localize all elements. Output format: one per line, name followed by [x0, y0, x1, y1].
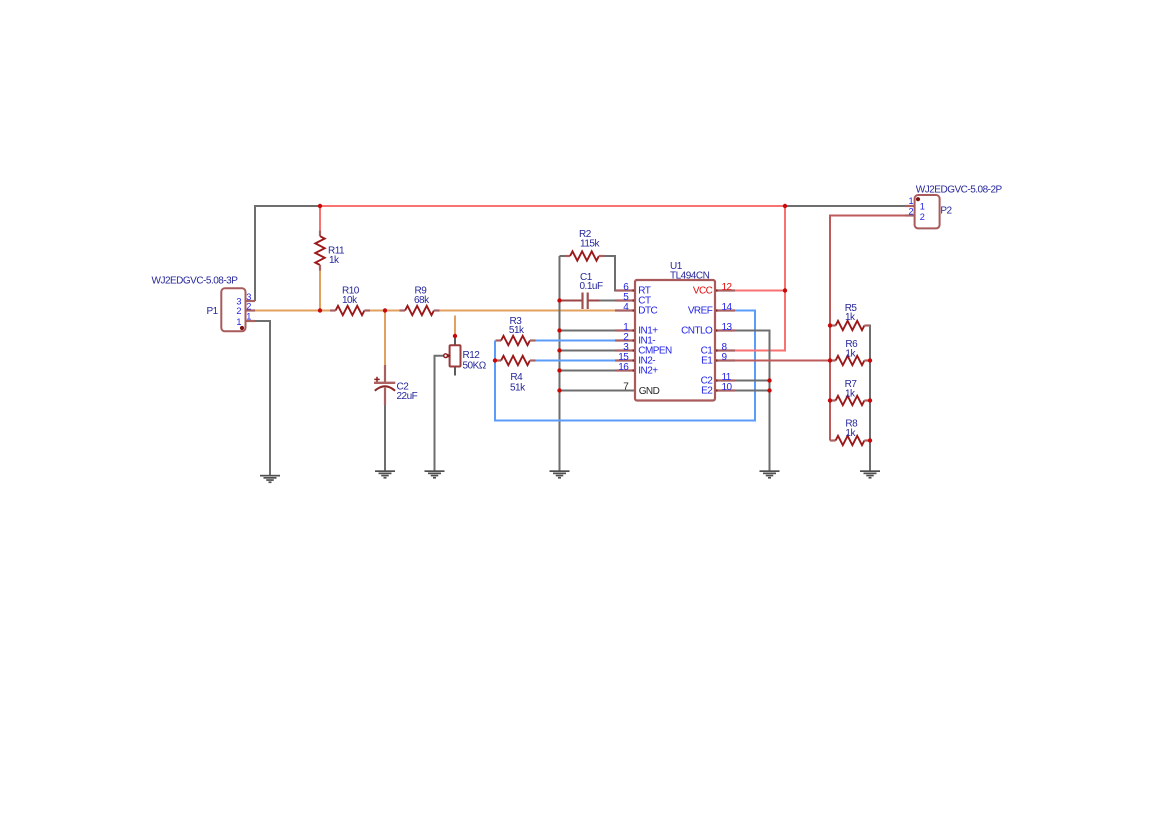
- wire R3 right to U1 IN1- pin 2 (blue): [536, 340, 617, 342]
- wire P2 pin2 down to resistor ladder (brick red): [830, 216, 906, 441]
- wire rail to U1 IN1+ pin 1 (gray): [560, 330, 617, 332]
- svg-text:1k: 1k: [845, 388, 856, 399]
- svg-text:3: 3: [236, 296, 241, 306]
- connector P1 pin stubs: [245, 301, 255, 321]
- svg-text:3: 3: [246, 292, 251, 302]
- svg-text:TL494CN: TL494CN: [670, 271, 710, 282]
- node ladder R7 left: [828, 398, 832, 402]
- svg-text:VCC: VCC: [693, 286, 713, 297]
- node gnd / E2 pin10: [767, 388, 771, 392]
- wire C2 bottom to ground (gray): [384, 405, 386, 471]
- wire R4 right to U1 IN2- pin 15 (blue): [536, 360, 617, 362]
- svg-text:2: 2: [908, 207, 913, 217]
- svg-text:1k: 1k: [845, 312, 856, 323]
- wire C1 right to U1 CT pin 5 (gray): [599, 300, 616, 302]
- resistor R7: [830, 396, 870, 405]
- wire rail to U1 IN2+ pin 16 (gray): [560, 370, 617, 372]
- node orange rail / C2 branch: [383, 308, 387, 312]
- svg-text:51k: 51k: [509, 325, 525, 336]
- wire top rail VCC net (light red): [319, 205, 785, 207]
- svg-text:WJ2EDGVC-5.08-2P: WJ2EDGVC-5.08-2P: [916, 185, 1003, 196]
- svg-text:2: 2: [920, 212, 925, 222]
- ground below C2: [375, 470, 395, 478]
- svg-text:1: 1: [246, 312, 251, 322]
- svg-text:1k: 1k: [845, 428, 856, 439]
- svg-text:1: 1: [236, 317, 241, 327]
- component value and name labels: [152, 185, 1003, 439]
- connector P2 body: [915, 195, 940, 228]
- wire U1 C2 pin 11 to ground rail (gray): [735, 380, 770, 382]
- connector P2 pin numbers: [908, 196, 924, 222]
- svg-text:10: 10: [722, 382, 733, 393]
- resistor R11: [315, 231, 324, 271]
- wire ground rail vertical (gray): [559, 256, 561, 471]
- node VCC vertical / pin 12: [783, 288, 787, 292]
- wire R2 right to U1 RT pin 6 (gray): [604, 256, 618, 291]
- wire orange branch down to C2: [384, 311, 386, 367]
- resistor R9: [400, 306, 440, 315]
- wire top rail right segment to P2 pin1 (gray): [784, 205, 906, 207]
- svg-text:E2: E2: [701, 386, 713, 397]
- op-amp U1 pin stubs: [615, 289, 735, 391]
- svg-text:P2: P2: [940, 205, 952, 216]
- resistor R8: [830, 436, 870, 445]
- svg-text:14: 14: [722, 302, 733, 313]
- wire P1 pin1 to ground (gray): [255, 321, 270, 475]
- node gnd rail / GND pin: [557, 388, 561, 392]
- node ladder R8 right: [868, 438, 872, 442]
- svg-text:IN2+: IN2+: [638, 366, 658, 377]
- resistor R6: [830, 356, 870, 365]
- wire U1 VREF pin 14 blue net loop: [495, 311, 755, 421]
- svg-text:DTC: DTC: [638, 306, 657, 317]
- node gnd rail / IN2+: [557, 368, 561, 372]
- op-amp U1 TL494CN body: [635, 280, 715, 401]
- svg-text:1k: 1k: [845, 349, 856, 360]
- svg-text:68k: 68k: [414, 295, 430, 306]
- svg-text:13: 13: [722, 322, 733, 333]
- connector P2 pin stubs: [905, 206, 915, 216]
- wire rail to U1 GND pin 7 (gray): [560, 390, 636, 392]
- node ladder R6 left / E1: [828, 358, 832, 362]
- svg-text:1: 1: [908, 196, 913, 206]
- potentiometer R12: [444, 337, 461, 376]
- connector P1 body: [221, 288, 245, 331]
- wire rail to U1 CMPEN pin 3 (gray): [560, 350, 617, 352]
- svg-text:51k: 51k: [510, 383, 526, 394]
- wire R12 wiper to ground (gray): [435, 356, 444, 471]
- node ladder R7 right: [868, 398, 872, 402]
- node ladder R6 right: [868, 358, 872, 362]
- wire R11 bottom to orange rail: [319, 271, 321, 312]
- svg-text:VREF: VREF: [688, 306, 713, 317]
- svg-text:50KΩ: 50KΩ: [463, 361, 487, 372]
- resistor R10: [330, 306, 370, 315]
- wire P1 pin2 orange net to R10: [255, 310, 330, 312]
- wire VCC vertical at x785 down to C1 pin 8 (light red): [735, 205, 785, 351]
- svg-text:CNTLO: CNTLO: [681, 326, 713, 337]
- svg-text:E1: E1: [701, 356, 713, 367]
- wire orange stub above R12: [454, 316, 456, 336]
- svg-text:16: 16: [618, 362, 629, 373]
- node ladder R5 left: [828, 323, 832, 327]
- wire ladder right vertical to ground (gray): [869, 325, 871, 471]
- capacitor C1: [561, 293, 600, 310]
- wire VCC rail down to R11 (light red): [319, 205, 321, 231]
- svg-text:2: 2: [236, 306, 241, 316]
- ground below R12: [425, 470, 445, 478]
- svg-text:R12: R12: [463, 350, 481, 361]
- resistor R2: [565, 251, 605, 260]
- wire P1 pin3 to top rail (gray): [255, 206, 321, 301]
- svg-text:GND: GND: [639, 386, 660, 397]
- node gnd rail / IN1+: [557, 328, 561, 332]
- wire U1 E1 pin 9 to R6 (brick red): [735, 360, 830, 362]
- ground below ladder: [860, 470, 880, 478]
- node orange rail / R11 bottom: [318, 308, 322, 312]
- svg-text:10k: 10k: [342, 295, 358, 306]
- node gnd rail / CMPEN: [557, 348, 561, 352]
- node top rail / R11: [318, 204, 322, 208]
- wire R10 to R9 (orange): [370, 310, 400, 312]
- wire U1 CNTLO pin 13 to ground (gray): [735, 331, 770, 471]
- svg-text:2: 2: [246, 301, 251, 311]
- resistor R4: [496, 356, 536, 365]
- ground at P1 pin1: [260, 475, 280, 483]
- svg-text:1k: 1k: [329, 255, 340, 266]
- resistor R3: [496, 336, 536, 345]
- node gnd / C2 pin11: [767, 378, 771, 382]
- ground below CNTLO: [760, 470, 780, 478]
- node VREF / R4 left: [493, 358, 497, 362]
- connector P1 pin numbers: [236, 292, 251, 327]
- node top rail / VCC vertical: [783, 204, 787, 208]
- wire R2 left to rail (gray): [560, 255, 566, 257]
- svg-text:WJ2EDGVC-5.08-3P: WJ2EDGVC-5.08-3P: [152, 276, 239, 287]
- connector P2 pin1 marker dot: [916, 197, 920, 201]
- svg-text:1: 1: [920, 201, 925, 211]
- ground below gnd rail: [550, 470, 570, 478]
- node R12 top terminal: [453, 334, 457, 338]
- op-amp U1 pin numbers: [618, 282, 732, 393]
- wire U1 E2 pin 10 to ground rail (gray): [735, 390, 770, 392]
- wire U1 VCC pin 12 to vertical (light red): [735, 290, 786, 292]
- svg-text:0.1uF: 0.1uF: [580, 281, 603, 292]
- op-amp U1 pin names: [638, 286, 713, 397]
- wire R9 to U1 DTC pin 4 (orange): [440, 310, 617, 312]
- capacitor C2: [374, 365, 395, 405]
- svg-text:115k: 115k: [580, 239, 600, 250]
- svg-text:P1: P1: [207, 306, 219, 317]
- svg-text:12: 12: [722, 282, 733, 293]
- resistor R5: [830, 321, 870, 330]
- svg-text:22uF: 22uF: [397, 391, 418, 402]
- node gnd rail / C1 left: [557, 298, 561, 302]
- connector P1 pin1 marker dot: [240, 326, 244, 330]
